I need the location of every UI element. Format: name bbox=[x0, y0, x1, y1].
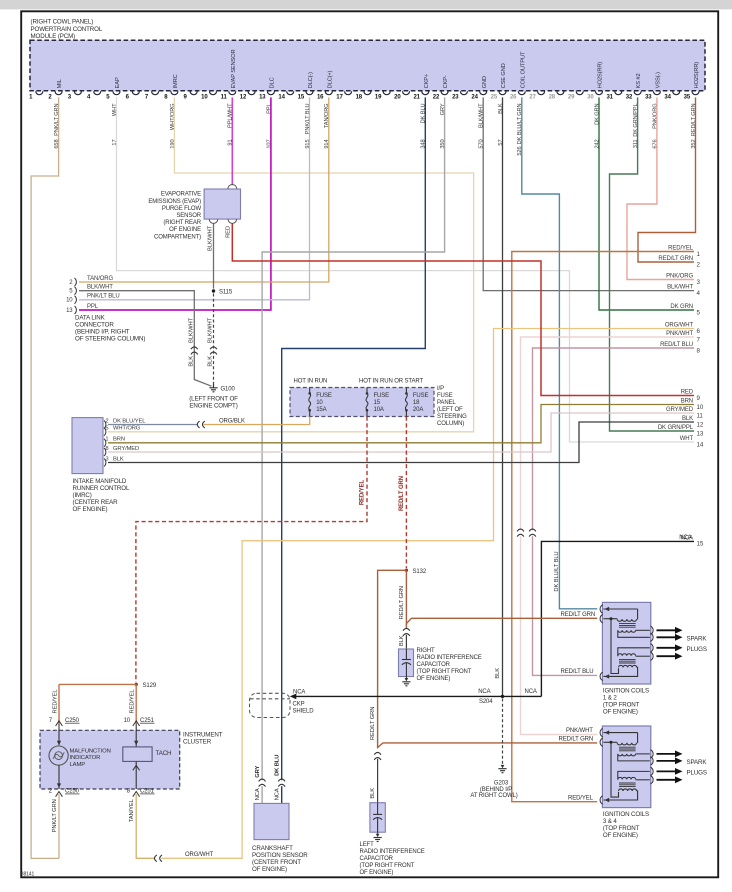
TACH gauge box bbox=[123, 747, 152, 762]
svg-text:22: 22 bbox=[433, 94, 440, 100]
wire RED/LT BLU connector 8 to ignition coils 1 and 2 bbox=[533, 348, 695, 530]
svg-text:32: 32 bbox=[626, 94, 633, 100]
svg-text:26: 26 bbox=[510, 94, 517, 100]
break on GRY wire bbox=[259, 779, 266, 781]
svg-text:OF ENGINE): OF ENGINE) bbox=[603, 832, 638, 839]
svg-text:LAMP: LAMP bbox=[70, 762, 86, 768]
svg-text:(LEFT FRONT OF: (LEFT FRONT OF bbox=[189, 395, 238, 402]
wire 91 PPL/WHT pin 11 to EVAP sensor bbox=[231, 97, 233, 185]
wire BLK dashed from S115 to ground G100 bbox=[213, 294, 215, 385]
PCM connector cavity arcs bbox=[36, 91, 43, 95]
svg-text:COMPARTMENT): COMPARTMENT) bbox=[154, 234, 201, 240]
svg-text:OF STEERING COLUMN): OF STEERING COLUMN) bbox=[75, 336, 145, 343]
connector C251 crossing at bottom bbox=[133, 792, 140, 797]
wire BLK connector 12 to IMRC bbox=[108, 422, 694, 463]
svg-text:15A: 15A bbox=[316, 407, 326, 413]
wire 570 BLK/WHT pin 24 to connector 4 bbox=[483, 97, 694, 290]
svg-text:24: 24 bbox=[471, 94, 478, 100]
wire PNK/WHT connector 7 to ignition coils 3 and 4 bbox=[521, 337, 695, 530]
svg-text:15: 15 bbox=[697, 541, 704, 548]
svg-text:18: 18 bbox=[413, 400, 420, 406]
svg-text:23: 23 bbox=[452, 94, 459, 100]
wire RED/LT GRN S132 down to right capacitor bbox=[406, 570, 597, 623]
svg-text:(TOP FRONT: (TOP FRONT bbox=[603, 825, 640, 832]
svg-text:ORG/WHT: ORG/WHT bbox=[185, 852, 214, 858]
svg-text:10: 10 bbox=[124, 718, 131, 724]
fuse 18 20A bbox=[405, 388, 407, 393]
svg-text:(TOP RIGHT FRONT: (TOP RIGHT FRONT bbox=[417, 669, 472, 675]
svg-text:SPARK: SPARK bbox=[687, 759, 708, 766]
svg-text:3 & 4: 3 & 4 bbox=[603, 818, 618, 825]
splice S115 bbox=[212, 289, 215, 292]
svg-text:BRN: BRN bbox=[113, 437, 125, 443]
svg-text:FUSE: FUSE bbox=[437, 393, 453, 399]
wire 17 WHT pin 5 to connector 14 bbox=[117, 97, 695, 442]
svg-text:12: 12 bbox=[240, 94, 247, 100]
wire RED/YEL S129 to C250 MIL lamp bbox=[135, 684, 137, 723]
svg-text:SENSOR: SENSOR bbox=[176, 213, 201, 219]
break above right capacitor bbox=[403, 628, 410, 630]
splice S132 bbox=[405, 569, 408, 572]
svg-text:RED/LT GRN: RED/LT GRN bbox=[658, 256, 693, 262]
wire BRN connector 10 to IMRC bbox=[108, 405, 694, 443]
svg-text:BLK/WHT: BLK/WHT bbox=[667, 285, 693, 291]
svg-text:19: 19 bbox=[375, 94, 382, 100]
svg-text:IGNITION COILS: IGNITION COILS bbox=[603, 687, 649, 694]
svg-text:BLK: BLK bbox=[495, 668, 501, 679]
splice S129 bbox=[135, 683, 138, 686]
svg-text:RED/LT GRN: RED/LT GRN bbox=[370, 707, 376, 740]
break DK BLU/YEL to ORG/BLK bbox=[197, 421, 199, 428]
wire 352 RED/LT GRN pin 35 to connector 2 bbox=[638, 97, 696, 262]
svg-text:BLK: BLK bbox=[208, 356, 214, 367]
svg-text:PURGE FLOW: PURGE FLOW bbox=[162, 206, 202, 212]
svg-text:10A: 10A bbox=[374, 407, 384, 413]
svg-text:DK BLU: DK BLU bbox=[274, 755, 280, 776]
svg-text:28: 28 bbox=[549, 94, 556, 100]
svg-text:27: 27 bbox=[529, 94, 536, 100]
break on EVAP ground wire bbox=[210, 347, 217, 349]
connector C250 crossing at top bbox=[56, 721, 63, 726]
svg-text:10: 10 bbox=[201, 94, 208, 100]
svg-text:29: 29 bbox=[568, 94, 575, 100]
svg-text:RED/YEL: RED/YEL bbox=[130, 689, 136, 714]
wire 242 DK GRN pin 30 to connector 5 bbox=[599, 97, 694, 310]
svg-text:PNK/WHT: PNK/WHT bbox=[666, 331, 693, 337]
svg-text:COIL OUTPUT: COIL OUTPUT bbox=[520, 51, 526, 88]
wire PNK/LT GRN MIL lamp return bbox=[58, 794, 60, 858]
svg-text:BLK: BLK bbox=[682, 416, 693, 422]
svg-text:IMRC: IMRC bbox=[173, 74, 179, 88]
svg-text:WHT/ORG: WHT/ORG bbox=[113, 426, 141, 432]
svg-text:EMISSIONS (EVAP): EMISSIONS (EVAP) bbox=[148, 199, 201, 205]
instrument cluster box bbox=[40, 730, 180, 789]
svg-text:POWERTRAIN CONTROL: POWERTRAIN CONTROL bbox=[31, 26, 103, 33]
svg-text:(CENTER REAR: (CENTER REAR bbox=[73, 499, 119, 506]
svg-text:BLK/WHT: BLK/WHT bbox=[188, 317, 194, 343]
svg-text:CRANKSHAFT: CRANKSHAFT bbox=[252, 845, 293, 852]
svg-text:HOT IN RUN OR START: HOT IN RUN OR START bbox=[359, 378, 424, 384]
wire 190 WHT/ORG pin 8 to IMRC bbox=[108, 97, 474, 431]
svg-text:NCA: NCA bbox=[679, 535, 691, 541]
svg-text:88141: 88141 bbox=[21, 871, 35, 877]
ground G100 bbox=[213, 384, 215, 387]
svg-text:10: 10 bbox=[316, 400, 323, 406]
svg-text:GRY: GRY bbox=[255, 766, 261, 778]
wire RED/LT GRN dashed fuse 18 to splice S132 bbox=[405, 417, 407, 569]
wire DK BLU/YEL from IMRC to break bbox=[108, 424, 197, 426]
ignition coils 1 and 2 bbox=[602, 602, 650, 684]
svg-text:MALFUNCTION: MALFUNCTION bbox=[70, 748, 111, 754]
svg-text:BLK: BLK bbox=[113, 456, 124, 462]
svg-text:(RIGHT REAR: (RIGHT REAR bbox=[163, 220, 201, 226]
svg-text:RED/LT BLU: RED/LT BLU bbox=[561, 669, 594, 675]
break on DK BLU wire bbox=[278, 779, 285, 781]
svg-text:RED/LT GRN: RED/LT GRN bbox=[399, 586, 405, 619]
svg-text:DATA LINK: DATA LINK bbox=[75, 315, 106, 322]
svg-text:DLC: DLC bbox=[270, 77, 276, 88]
wire BLK to left capacitor bbox=[377, 759, 379, 803]
svg-text:RED/YEL: RED/YEL bbox=[568, 795, 594, 801]
svg-text:POSITION SENSOR: POSITION SENSOR bbox=[252, 852, 308, 859]
svg-text:BLK: BLK bbox=[399, 635, 405, 646]
svg-text:BLK/WHT: BLK/WHT bbox=[208, 317, 214, 343]
wire into MIL lamp bbox=[58, 723, 60, 745]
svg-text:OF ENGINE): OF ENGINE) bbox=[360, 870, 394, 876]
svg-text:TAN/ORG: TAN/ORG bbox=[87, 276, 114, 282]
wire from MIL lamp to box bottom bbox=[58, 765, 60, 789]
svg-text:S129: S129 bbox=[143, 683, 157, 689]
svg-text:(CENTER FRONT: (CENTER FRONT bbox=[252, 859, 301, 866]
capacitor C right box bbox=[399, 649, 414, 677]
svg-text:RIGHT: RIGHT bbox=[417, 648, 436, 654]
wire from TACH to box bottom bbox=[135, 761, 137, 789]
wire 676 PNK/ORG pin 33 to connector 3 bbox=[627, 97, 694, 279]
capacitor C right symbol bbox=[405, 649, 407, 660]
svg-text:S115: S115 bbox=[219, 289, 233, 295]
wire BLK dashed S204 to ground G203 bbox=[502, 699, 504, 765]
svg-text:ORG/BLK: ORG/BLK bbox=[219, 418, 245, 424]
svg-text:RADIO INTERFERENCE: RADIO INTERFERENCE bbox=[417, 655, 482, 661]
break above left capacitor bbox=[374, 752, 381, 754]
svg-text:NCA: NCA bbox=[255, 788, 261, 800]
svg-text:RED: RED bbox=[226, 226, 232, 238]
svg-text:CAPACITOR: CAPACITOR bbox=[417, 662, 451, 668]
svg-text:CKP: CKP bbox=[293, 701, 305, 707]
connector C250 crossing at bottom bbox=[56, 792, 63, 797]
svg-text:13: 13 bbox=[697, 430, 704, 437]
fuse panel box bbox=[290, 388, 434, 417]
svg-text:BRN: BRN bbox=[681, 399, 693, 405]
svg-text:VSS(-): VSS(-) bbox=[656, 72, 662, 89]
svg-text:RED/LT GRN: RED/LT GRN bbox=[561, 612, 596, 618]
svg-text:13: 13 bbox=[66, 308, 73, 314]
svg-text:HO2S(RR): HO2S(RR) bbox=[694, 62, 700, 89]
svg-text:WHT: WHT bbox=[680, 436, 694, 442]
svg-text:CLUSTER: CLUSTER bbox=[183, 739, 212, 746]
svg-text:OF ENGINE): OF ENGINE) bbox=[417, 676, 451, 682]
svg-text:33: 33 bbox=[645, 94, 652, 100]
svg-text:25: 25 bbox=[491, 94, 498, 100]
wire 914 TAN/ORG pin 16 to DLC pin 2 bbox=[79, 97, 329, 282]
wire 658 PNK/LT GRN pin 2 to instrument cluster bbox=[31, 97, 59, 858]
break on RED/LT BLU wire bbox=[529, 529, 536, 531]
wire GRY/MED connector 11 to IMRC bbox=[108, 413, 694, 452]
svg-text:CONNECTOR: CONNECTOR bbox=[75, 322, 114, 329]
svg-text:CKP+: CKP+ bbox=[424, 73, 430, 88]
PCM module box bbox=[30, 40, 705, 91]
svg-text:CKP-: CKP- bbox=[443, 75, 449, 88]
svg-text:DK BLU/YEL: DK BLU/YEL bbox=[113, 418, 146, 424]
svg-text:LEFT: LEFT bbox=[360, 842, 375, 848]
wire RED/YEL dashed fuse 15 to splice S129 bbox=[136, 417, 367, 683]
svg-text:BLK: BLK bbox=[188, 356, 194, 367]
svg-text:11: 11 bbox=[221, 94, 228, 100]
svg-text:11: 11 bbox=[697, 412, 704, 419]
svg-text:10: 10 bbox=[697, 404, 704, 411]
svg-text:INTAKE MANIFOLD: INTAKE MANIFOLD bbox=[73, 478, 127, 485]
wire into TACH bbox=[135, 723, 137, 747]
wire 107 PPL pin 13 to DLC pin 13 bbox=[79, 97, 271, 310]
wire 915 PNK/LT BLU pin 15 to DLC pin 10 bbox=[79, 97, 310, 299]
svg-text:KS #2: KS #2 bbox=[636, 73, 642, 88]
break on solid ground wire bbox=[191, 347, 198, 349]
wire TAN/YEL from TACH bbox=[136, 794, 154, 858]
svg-text:INSTRUMENT: INSTRUMENT bbox=[183, 732, 223, 739]
svg-text:21: 21 bbox=[413, 94, 420, 100]
svg-text:PPL: PPL bbox=[87, 304, 99, 310]
svg-text:BLK/WHT: BLK/WHT bbox=[208, 225, 214, 251]
svg-text:RED/YEL: RED/YEL bbox=[359, 480, 365, 506]
wire RED/YEL connector 1 to ignition coils 3 and 4 bbox=[512, 252, 694, 802]
svg-text:DK GRN: DK GRN bbox=[670, 304, 693, 310]
svg-text:NCA: NCA bbox=[478, 689, 490, 695]
break on PNK/WHT wire bbox=[517, 529, 524, 531]
svg-text:PNK/LT GRN: PNK/LT GRN bbox=[52, 799, 58, 832]
connector C251 crossing at top bbox=[133, 721, 140, 726]
wire RED from EVAP sensor to connector 9 bbox=[232, 223, 694, 395]
svg-text:RED/LT BLU: RED/LT BLU bbox=[660, 342, 693, 348]
svg-text:PNK/ORG: PNK/ORG bbox=[666, 274, 693, 280]
svg-text:ORG/WHT: ORG/WHT bbox=[665, 323, 694, 329]
fuse 15 10A bbox=[366, 388, 368, 393]
CKP sensor box bbox=[254, 803, 289, 839]
svg-text:RUNNER CONTROL: RUNNER CONTROL bbox=[73, 485, 130, 492]
svg-text:(IMRC): (IMRC) bbox=[73, 492, 92, 499]
fuse 10 15A bbox=[309, 388, 311, 393]
svg-text:TAN/YEL: TAN/YEL bbox=[129, 798, 135, 822]
IMRC box bbox=[72, 418, 103, 474]
svg-text:EVAPORATIVE: EVAPORATIVE bbox=[161, 192, 201, 198]
svg-text:PANEL: PANEL bbox=[437, 400, 456, 406]
svg-text:34: 34 bbox=[664, 94, 671, 100]
svg-text:NCA: NCA bbox=[274, 788, 280, 800]
svg-text:BLK/WHT: BLK/WHT bbox=[87, 285, 113, 291]
svg-text:GRY/MED: GRY/MED bbox=[666, 407, 694, 413]
splice S204 bbox=[501, 695, 504, 698]
svg-text:DK BLU/LT BLU: DK BLU/LT BLU bbox=[554, 552, 560, 592]
svg-text:PLUGS: PLUGS bbox=[687, 646, 707, 653]
svg-text:RED/LT GRN: RED/LT GRN bbox=[559, 737, 594, 743]
svg-text:ENGINE COMPT): ENGINE COMPT) bbox=[189, 402, 237, 409]
svg-text:STEERING: STEERING bbox=[437, 414, 467, 420]
svg-text:GRY/MED: GRY/MED bbox=[113, 446, 139, 452]
NCA bus wire with arrow to CKP shield bbox=[295, 695, 541, 697]
svg-text:RED: RED bbox=[681, 390, 694, 396]
ground G203 bbox=[501, 765, 505, 768]
wire NCA connector 15 to splice S204 bbox=[541, 541, 694, 696]
svg-text:15: 15 bbox=[298, 94, 305, 100]
svg-text:NCA: NCA bbox=[293, 690, 305, 696]
wire BLK/WHT from EVAP sensor to splice S115 bbox=[213, 223, 215, 288]
svg-text:OF ENGINE): OF ENGINE) bbox=[252, 866, 287, 873]
wire 311 DK GRN/PPL pin 32 to connector 13 bbox=[610, 97, 695, 431]
ground below right capacitor bbox=[405, 677, 407, 679]
capacitor C left symbol bbox=[377, 803, 379, 815]
svg-text:14: 14 bbox=[278, 94, 285, 100]
malfunction indicator lamp bbox=[49, 746, 68, 765]
svg-text:CSE GND: CSE GND bbox=[501, 63, 507, 88]
svg-text:MODULE (PCM): MODULE (PCM) bbox=[31, 33, 76, 40]
svg-text:AT RIGHT COWL): AT RIGHT COWL) bbox=[470, 793, 517, 799]
svg-text:FUSE: FUSE bbox=[413, 393, 429, 399]
svg-text:NCA: NCA bbox=[525, 689, 537, 695]
EVAP purge flow sensor box bbox=[204, 189, 240, 219]
svg-text:FUSE: FUSE bbox=[316, 393, 332, 399]
svg-text:SPARK: SPARK bbox=[687, 635, 708, 642]
svg-text:RED/LT GRN: RED/LT GRN bbox=[399, 476, 405, 511]
svg-text:DK GRN/PPL: DK GRN/PPL bbox=[658, 425, 694, 431]
svg-text:EVAP SENSOR: EVAP SENSOR bbox=[231, 49, 237, 88]
svg-text:PNK/LT BLU: PNK/LT BLU bbox=[87, 294, 120, 300]
wire RED/LT GRN S132 branch to left bbox=[378, 570, 598, 747]
svg-text:I/P: I/P bbox=[437, 386, 444, 392]
top gray margin band bbox=[0, 0, 732, 9]
svg-text:OF ENGINE: OF ENGINE bbox=[169, 227, 201, 233]
svg-text:(LEFT OF: (LEFT OF bbox=[437, 407, 463, 413]
svg-text:CAPACITOR: CAPACITOR bbox=[360, 856, 394, 862]
svg-text:10: 10 bbox=[66, 298, 73, 304]
svg-text:TACH: TACH bbox=[156, 750, 172, 757]
svg-text:DLC(+): DLC(+) bbox=[327, 70, 333, 88]
svg-text:OF ENGINE): OF ENGINE) bbox=[73, 506, 108, 513]
svg-text:BLK: BLK bbox=[370, 788, 376, 799]
capacitor C left box bbox=[370, 803, 385, 833]
svg-text:15: 15 bbox=[374, 400, 381, 406]
svg-text:20A: 20A bbox=[413, 407, 423, 413]
svg-text:(RIGHT COWL PANEL): (RIGHT COWL PANEL) bbox=[31, 18, 94, 25]
svg-text:G203: G203 bbox=[494, 781, 509, 787]
wire BLK to right capacitor bbox=[405, 635, 407, 649]
svg-text:S204: S204 bbox=[479, 699, 493, 705]
wire DLC BLK/WHT to ground G100 bbox=[79, 291, 212, 387]
svg-text:SHIELD: SHIELD bbox=[293, 708, 315, 714]
svg-text:HO2S(RR): HO2S(RR) bbox=[598, 62, 604, 89]
CKP shield dashed screen bbox=[250, 693, 291, 717]
wire 526 DK BLU/LT GRN pin 26 to ignition coils 1 and 2 bbox=[522, 97, 597, 608]
svg-text:S132: S132 bbox=[413, 569, 427, 575]
svg-text:OF ENGINE): OF ENGINE) bbox=[603, 708, 638, 715]
wire 57 BLK pin 25 to splice S204 bbox=[502, 97, 504, 696]
ignition coils 3 and 4 bbox=[602, 726, 650, 808]
svg-text:GND: GND bbox=[482, 76, 488, 88]
wire 348 DK BLU pin 21 to CKP sensor bbox=[282, 97, 426, 780]
svg-text:31: 31 bbox=[606, 94, 613, 100]
svg-text:14: 14 bbox=[697, 441, 704, 448]
svg-text:30: 30 bbox=[587, 94, 594, 100]
svg-text:G100: G100 bbox=[221, 387, 236, 393]
wire 350 GRY pin 22 to CKP sensor bbox=[262, 97, 445, 780]
svg-text:(BEHIND I/P, RIGHT: (BEHIND I/P, RIGHT bbox=[75, 329, 130, 336]
svg-text:FUSE: FUSE bbox=[374, 393, 390, 399]
svg-text:12: 12 bbox=[697, 421, 704, 428]
svg-text:20: 20 bbox=[394, 94, 401, 100]
svg-text:RED/YEL: RED/YEL bbox=[668, 246, 694, 252]
ground below left capacitor bbox=[377, 832, 379, 834]
svg-text:MIL: MIL bbox=[57, 79, 63, 88]
wire ORG/WHT connector 6 to splice with TAN/YEL bbox=[161, 329, 694, 859]
svg-text:35: 35 bbox=[684, 94, 691, 100]
svg-text:HOT IN RUN: HOT IN RUN bbox=[294, 378, 328, 384]
svg-text:(TOP FRONT: (TOP FRONT bbox=[603, 701, 640, 708]
svg-text:PLUGS: PLUGS bbox=[687, 769, 707, 776]
svg-text:13: 13 bbox=[259, 94, 266, 100]
svg-text:INDICATOR: INDICATOR bbox=[70, 755, 101, 761]
svg-text:DLC(-): DLC(-) bbox=[308, 72, 314, 89]
wire ORG/BLK from break to fuse 10 bbox=[204, 417, 310, 425]
break TAN/YEL to ORG/WHT bbox=[155, 855, 157, 862]
svg-text:1 & 2: 1 & 2 bbox=[603, 694, 618, 701]
svg-text:EAP: EAP bbox=[115, 77, 121, 88]
svg-text:16: 16 bbox=[317, 94, 324, 100]
svg-text:IGNITION COILS: IGNITION COILS bbox=[603, 811, 649, 818]
svg-text:18: 18 bbox=[356, 94, 363, 100]
svg-text:(TOP RIGHT FRONT: (TOP RIGHT FRONT bbox=[360, 863, 415, 869]
svg-text:RED/YEL: RED/YEL bbox=[52, 689, 58, 714]
svg-text:COLUMN): COLUMN) bbox=[437, 421, 464, 427]
svg-text:17: 17 bbox=[336, 94, 343, 100]
svg-text:(BEHIND I/P: (BEHIND I/P bbox=[480, 787, 512, 793]
svg-text:RADIO INTERFERENCE: RADIO INTERFERENCE bbox=[360, 849, 425, 855]
svg-text:PNK/WHT: PNK/WHT bbox=[566, 728, 593, 734]
